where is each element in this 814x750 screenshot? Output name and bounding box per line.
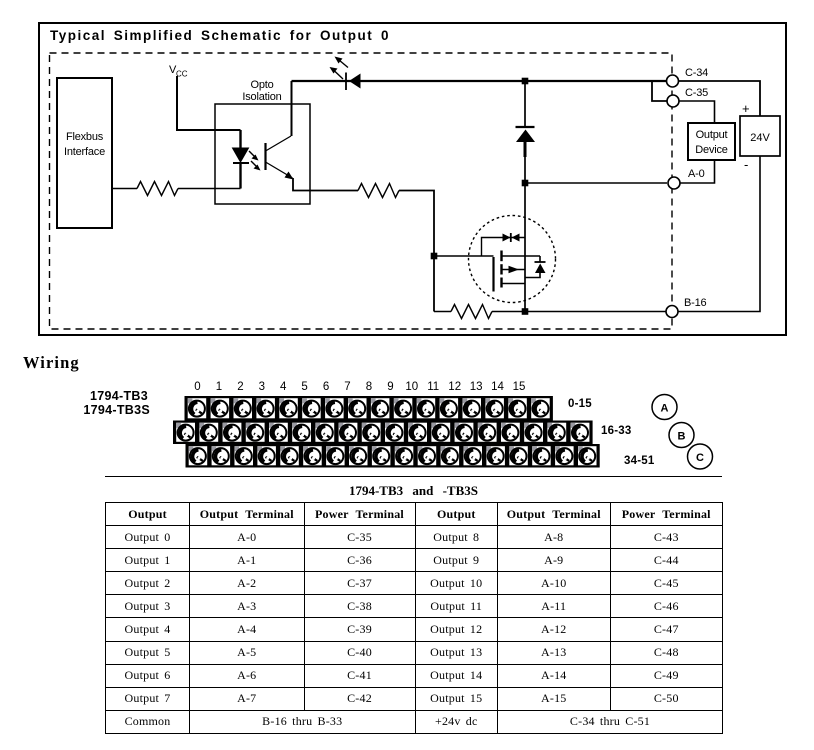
opto isolation label [242, 79, 281, 103]
table title: 1794-TB3 and -TB3S [105, 476, 722, 502]
wire R2 to gate node [399, 191, 434, 312]
svg-text:Flexbus: Flexbus [66, 131, 104, 143]
terminal B-16 [666, 297, 707, 318]
svg-text:+: + [742, 101, 750, 116]
resistor R2 (gate drive) [358, 184, 399, 198]
wire C-34 to 24V plus [679, 81, 761, 116]
output device box [688, 123, 735, 160]
terminal row 16-33 [173, 421, 593, 445]
status LED arrows [330, 57, 349, 80]
svg-text:1794-TB3: 1794-TB3 [90, 389, 148, 403]
Q1 drain-source vertical [524, 186, 526, 312]
resistor R3 (gate-source) [434, 305, 525, 319]
transistor Q1 MOSFET outline [469, 216, 556, 303]
svg-text:B-16: B-16 [684, 297, 707, 309]
svg-text:Typical Simplified Schematic f: Typical Simplified Schematic for Output … [50, 28, 390, 43]
Vcc supply label [169, 64, 188, 79]
svg-text:3: 3 [259, 381, 265, 393]
terminal row 34-51 [186, 444, 600, 468]
wire output device to A-0 [680, 160, 715, 183]
terminal C-34 [667, 67, 709, 87]
svg-text:14: 14 [491, 381, 504, 393]
wire R1 to opto LED cathode [178, 188, 241, 190]
Q1 body tap arrow [502, 266, 526, 273]
svg-text:16-33: 16-33 [601, 425, 631, 437]
Q1 source tap [502, 283, 526, 285]
row labels [568, 398, 655, 467]
svg-text:9: 9 [387, 381, 393, 393]
svg-text:2: 2 [237, 381, 243, 393]
schematic outer frame [39, 23, 786, 335]
Vcc wire to opto LED [177, 76, 241, 130]
svg-text:A: A [661, 403, 669, 415]
svg-text:C-35: C-35 [685, 87, 708, 99]
node B [669, 423, 694, 448]
Q1 gate protection zener [482, 233, 526, 256]
svg-text:8: 8 [366, 381, 372, 393]
wire flexbus output [112, 188, 137, 190]
terminal assignment table [105, 502, 723, 734]
terminal numbers 0-15 [194, 381, 525, 393]
freewheel diode D1 [516, 84, 536, 183]
wire C-35 branch [652, 81, 667, 101]
opto phototransistor Q2 [266, 136, 294, 180]
schematic title [50, 28, 390, 43]
svg-text:C: C [696, 452, 704, 464]
svg-text:0: 0 [194, 381, 200, 393]
svg-text:24V: 24V [750, 132, 770, 144]
resistor R1 (LED drive) [137, 182, 178, 196]
wire B-16 [528, 311, 667, 313]
opto light arrows [249, 151, 261, 171]
dashed module boundary [50, 53, 673, 329]
node C [688, 444, 713, 469]
svg-text:13: 13 [470, 381, 483, 393]
terminal block labels [83, 389, 150, 417]
svg-text:11: 11 [427, 381, 439, 393]
svg-text:6: 6 [323, 381, 329, 393]
opto isolation box U2 [215, 104, 310, 204]
wire 24V minus to B-16 [678, 156, 760, 312]
svg-text:0-15: 0-15 [568, 398, 592, 410]
battery 24V [740, 101, 780, 172]
node source junction [522, 308, 529, 315]
wire opto collector to top rail [291, 81, 293, 136]
svg-text:Device: Device [695, 144, 728, 156]
Q1 gate bar [492, 257, 494, 292]
svg-text:5: 5 [301, 381, 307, 393]
opto LED D2 [233, 130, 250, 189]
status LED D3 [346, 73, 361, 91]
svg-text:10: 10 [405, 381, 418, 393]
svg-text:12: 12 [448, 381, 461, 393]
terminal A-0 [668, 168, 705, 189]
node top rail / drain branch [522, 78, 529, 85]
svg-text:-: - [744, 157, 748, 172]
svg-text:4: 4 [280, 381, 287, 393]
svg-text:15: 15 [513, 381, 526, 393]
top rail wire [292, 80, 667, 82]
svg-text:Output: Output [696, 129, 728, 141]
Q1 channel bar segments [500, 251, 502, 288]
wire A-0 [528, 182, 667, 184]
flexbus interface block U1 [57, 78, 112, 228]
svg-text:B: B [678, 431, 686, 443]
node A-0 branch [522, 180, 529, 187]
svg-text:1: 1 [216, 381, 222, 393]
node A [652, 395, 677, 420]
svg-text:Interface: Interface [64, 146, 105, 158]
svg-text:34-51: 34-51 [624, 455, 655, 467]
svg-text:Opto: Opto [250, 79, 273, 91]
wire opto emitter down [293, 178, 358, 191]
wiring section heading [23, 353, 80, 373]
wire C-35 to output device [679, 101, 715, 123]
Q1 drain tap [502, 255, 541, 257]
wire gate [434, 255, 494, 257]
Q1 body diode [525, 256, 546, 278]
svg-text:Isolation: Isolation [242, 91, 281, 103]
svg-text:C-34: C-34 [685, 67, 708, 79]
svg-text:1794-TB3S: 1794-TB3S [83, 403, 150, 417]
svg-text:7: 7 [344, 381, 350, 393]
node gate junction [431, 253, 438, 260]
svg-text:A-0: A-0 [688, 168, 705, 180]
terminal C-35 [667, 87, 708, 107]
terminal row 0-15 [185, 396, 553, 421]
